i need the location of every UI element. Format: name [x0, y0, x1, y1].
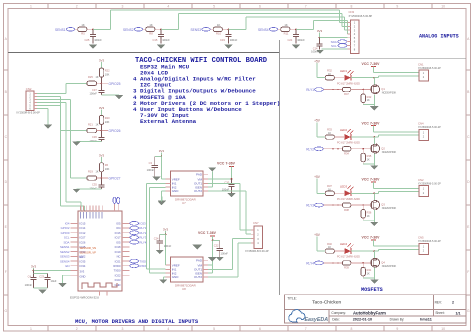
node drain junction CN4 block	[373, 136, 375, 138]
svg-text:U7: U7	[182, 201, 186, 205]
title block row line 2	[329, 315, 466, 317]
node GPIO26 junction	[101, 130, 103, 132]
ESP32 right pins	[122, 222, 130, 224]
section divider vertical (mcu / mosfets)	[279, 40, 281, 295]
svg-text:2: 2	[76, 4, 78, 8]
ground for C22	[216, 257, 224, 261]
svg-text:SENSOR_VP: SENSOR_VP	[80, 250, 97, 254]
svg-text:10K: 10K	[105, 73, 110, 77]
ground above U8	[192, 245, 202, 250]
resistor R36 1K pulldown	[362, 205, 364, 209]
svg-text:C36: C36	[92, 135, 97, 139]
wire CN3 pin8 to ground node	[322, 48, 348, 50]
svg-text:SENS2: SENS2	[60, 250, 70, 254]
capacitor C3 100nF	[155, 156, 162, 158]
svg-text:LED3: LED3	[340, 184, 347, 188]
svg-text:5: 5	[213, 327, 215, 331]
svg-text:IO21: IO21	[115, 259, 121, 263]
svg-text:R8: R8	[149, 31, 153, 35]
svg-text:U8: U8	[182, 287, 186, 291]
capacitor C37 100nF	[101, 83, 103, 90]
svg-text:GPIO26: GPIO26	[109, 129, 121, 133]
svg-text:G: G	[4, 309, 7, 313]
wire gate resistor to mosfet Q4	[351, 262, 370, 264]
frame column ticks and numbers	[47, 4, 49, 9]
svg-text:OUT2: OUT2	[194, 275, 202, 279]
svg-text:TXD0: TXD0	[114, 269, 121, 273]
resistor R22 10K	[99, 68, 103, 77]
svg-text:9: 9	[396, 4, 398, 8]
wire U7 GND to ground	[162, 190, 166, 192]
svg-text:100nF: 100nF	[162, 38, 170, 42]
net label GPIO26	[102, 130, 109, 132]
svg-text:Q1: Q1	[381, 87, 385, 91]
ground for C30	[227, 193, 235, 197]
title block vertical rev cell	[432, 295, 434, 316]
svg-text:CN1: CN1	[418, 62, 424, 66]
net port RLY3 on ESP32	[130, 236, 139, 240]
svg-text:1K: 1K	[328, 188, 331, 191]
svg-text:1K: 1K	[328, 132, 331, 135]
svg-text:3: 3	[122, 327, 124, 331]
svg-text:2: 2	[452, 300, 454, 304]
svg-text:1K: 1K	[284, 23, 287, 27]
svg-text:6: 6	[259, 327, 261, 331]
resistor R38 gate	[342, 203, 351, 207]
svg-text:R20: R20	[105, 116, 110, 120]
ground for Q1	[370, 106, 378, 110]
svg-text:100nF: 100nF	[89, 186, 97, 190]
svg-text:EN: EN	[80, 255, 84, 259]
svg-text:XY2500R-B-5.00-2P: XY2500R-B-5.00-2P	[418, 240, 441, 243]
svg-text:NCE6XP30K: NCE6XP30K	[382, 265, 397, 268]
svg-text:SCL: SCL	[64, 236, 70, 240]
capacitor C30 100nF	[231, 179, 233, 184]
svg-text:IO23: IO23	[139, 222, 146, 226]
title block vertical logo cell	[328, 309, 330, 323]
svg-text:1K: 1K	[367, 215, 370, 218]
svg-text:3V3: 3V3	[99, 153, 105, 157]
svg-text:IO18: IO18	[115, 245, 121, 249]
svg-text:RLY1: RLY1	[306, 88, 314, 92]
resistor R41 1K pulldown	[362, 263, 364, 267]
wire 3V3 to ESP32	[34, 270, 71, 272]
svg-text:IO23: IO23	[115, 278, 121, 282]
resistor R11 1K	[281, 27, 290, 31]
resistor R37 1K	[325, 191, 334, 195]
svg-text:VCC 7-36V: VCC 7-36V	[362, 121, 381, 125]
svg-text:XY2500R-B-5.00-2P: XY2500R-B-5.00-2P	[418, 182, 441, 185]
svg-text:PC-817 2MRK-620D: PC-817 2MRK-620D	[337, 256, 360, 259]
wire RLY1 to gate resistor	[323, 89, 342, 91]
svg-text:3V3: 3V3	[80, 270, 85, 274]
ground for C36	[101, 140, 103, 142]
svg-text:IO16: IO16	[115, 231, 121, 235]
wire motor driver input bus 2	[149, 187, 151, 273]
svg-text:C22: C22	[214, 244, 219, 248]
svg-text:NCE6XP30K: NCE6XP30K	[382, 207, 397, 210]
ground for C3	[152, 177, 160, 181]
wire U8 VM to VCC	[208, 264, 213, 266]
ground for U8 ISEN	[208, 272, 212, 274]
title block outline	[285, 295, 467, 323]
svg-text:RLY2: RLY2	[139, 231, 146, 235]
svg-text:1K: 1K	[367, 99, 370, 102]
svg-text:ESP32-WROOM-32U: ESP32-WROOM-32U	[70, 295, 99, 299]
resistor R42 1K pulldown	[362, 90, 364, 94]
svg-text:10K: 10K	[105, 120, 110, 124]
wire drain to CN5 pin2	[374, 250, 378, 252]
svg-text:10: 10	[441, 327, 445, 331]
svg-text:LED4: LED4	[340, 242, 347, 246]
svg-text:IO15: IO15	[80, 222, 86, 226]
svg-text:3V3: 3V3	[163, 228, 169, 232]
svg-text:F: F	[467, 270, 469, 274]
svg-text:C35: C35	[92, 183, 97, 187]
svg-text:3V3: 3V3	[99, 106, 105, 110]
svg-text:CN2: CN2	[418, 178, 424, 182]
svg-text:C37: C37	[92, 88, 97, 92]
svg-text:100nF: 100nF	[94, 38, 102, 42]
svg-text:SENS3: SENS3	[191, 28, 202, 32]
svg-text:GND: GND	[172, 275, 180, 279]
svg-text:Company:: Company:	[331, 311, 346, 315]
svg-text:VCC 7-36V: VCC 7-36V	[362, 178, 381, 182]
node U7 3V3 junction	[161, 156, 163, 158]
ground near ESP32 right top	[158, 201, 166, 205]
svg-text:R40: R40	[327, 242, 332, 246]
node drain junction CN5 block	[373, 250, 375, 252]
wire SENS2 to bus riser	[161, 28, 178, 30]
svg-text:XY2500R-B-5.00-4P: XY2500R-B-5.00-4P	[245, 249, 269, 253]
svg-text:1K: 1K	[96, 76, 99, 79]
net port TXD0 on ESP32	[130, 259, 139, 263]
svg-text:R42: R42	[367, 95, 372, 99]
svg-text:100nF: 100nF	[89, 139, 97, 143]
svg-text:IO17: IO17	[115, 236, 121, 240]
svg-text:R41: R41	[367, 268, 372, 272]
svg-text:+5V: +5V	[314, 233, 321, 237]
transistor Q2 NCE6XP30K	[371, 144, 380, 153]
svg-text:OUT2: OUT2	[194, 189, 202, 193]
svg-text:GND: GND	[172, 189, 180, 193]
svg-text:Q2: Q2	[381, 146, 385, 150]
ESP32 antenna meander	[82, 283, 117, 289]
ground for C4 C23	[38, 290, 46, 294]
svg-text:10uF: 10uF	[51, 279, 57, 283]
svg-text:PAD: PAD	[196, 173, 203, 177]
svg-text:1K: 1K	[149, 23, 152, 27]
svg-text:IO22: IO22	[115, 273, 121, 277]
wire CN2 pin1 to GPIO25 filter	[37, 92, 66, 94]
svg-text:100nF: 100nF	[25, 283, 33, 287]
resistor R47 gate	[342, 87, 351, 91]
net label GPIO27	[102, 177, 109, 179]
motor driver U7 DRV8871DDAR	[171, 171, 204, 196]
wire motor driver input bus 1	[146, 184, 148, 270]
svg-text:VCC 7-36V: VCC 7-36V	[362, 235, 381, 239]
svg-text:IO26: IO26	[80, 240, 86, 244]
capacitor C23 10uF	[34, 273, 48, 275]
mcu module U5 ESP32-WROOM-32U	[78, 211, 122, 291]
svg-text:SENSOR_VN: SENSOR_VN	[80, 246, 97, 250]
resistor R39 gate	[342, 261, 351, 265]
svg-text:VCC 7-36V: VCC 7-36V	[217, 162, 236, 166]
svg-text:R11: R11	[284, 31, 289, 35]
capacitor C25 100nF	[92, 29, 94, 34]
wire CN2 pin3 to GPIO27 filter	[37, 98, 70, 100]
net label GPIO25	[102, 82, 109, 84]
svg-text:SENS4: SENS4	[60, 259, 70, 263]
svg-text:Sheet:: Sheet:	[435, 311, 444, 315]
svg-text:XY2500R-B-5.00-6P: XY2500R-B-5.00-6P	[16, 111, 40, 115]
wire Q3 source to ground	[373, 210, 375, 222]
wire gate resistor to mosfet Q1	[351, 89, 370, 91]
svg-text:+5V: +5V	[314, 59, 321, 63]
ground for CN2	[44, 125, 52, 129]
resistor R5 1K	[78, 27, 87, 31]
wire SENS3 to bus riser	[229, 28, 246, 30]
resistor R19 1K	[87, 176, 97, 180]
svg-text:PC-817 2MRK-620D: PC-817 2MRK-620D	[337, 142, 360, 145]
node U8 VM junction	[212, 239, 214, 241]
wire U7 OUT2 to CN7 pin2	[208, 190, 246, 192]
wire RLY3 to gate resistor	[323, 204, 342, 206]
svg-text:EN: EN	[65, 264, 69, 268]
node SENS2 junction	[160, 28, 162, 30]
svg-text:Taco-Chicken: Taco-Chicken	[312, 300, 341, 306]
svg-text:IO19: IO19	[115, 250, 121, 254]
node U7 VM junction	[231, 178, 233, 180]
resistor R32 1K	[325, 76, 334, 80]
section divider horizontal right (analog inputs / mosfets)	[280, 57, 467, 59]
svg-text:GPIO27: GPIO27	[109, 177, 121, 181]
svg-text:R35: R35	[367, 154, 372, 158]
wire CN2 pin5 to ESP32 top pin	[37, 105, 60, 107]
ground for C21	[292, 45, 300, 49]
svg-text:C24: C24	[154, 237, 159, 241]
svg-text:IO35: IO35	[80, 259, 86, 263]
svg-text:GPIO25: GPIO25	[109, 82, 121, 86]
resistor R8 1K	[146, 27, 155, 31]
net port RLY1 on ESP32	[130, 226, 139, 230]
svg-text:GPIO2: GPIO2	[61, 226, 70, 230]
ESP32 left pins and net labels	[71, 222, 79, 224]
svg-text:REV:: REV:	[435, 300, 442, 304]
svg-text:100nF: 100nF	[297, 38, 305, 42]
resistor R6 10K	[99, 163, 103, 172]
svg-text:C21: C21	[287, 38, 292, 42]
resistor R21 1K	[87, 128, 97, 132]
ground for U7 GND	[157, 201, 165, 205]
ground for C25	[89, 45, 97, 49]
svg-text:SENS4: SENS4	[258, 28, 269, 32]
svg-text:100nF: 100nF	[230, 38, 238, 42]
resistor R25 1K	[87, 81, 97, 85]
wire Q4 source to ground	[373, 268, 375, 280]
wire 3V3 to U8 VREF	[165, 235, 167, 266]
ground for Q2	[370, 166, 378, 170]
svg-text:RXD0: RXD0	[113, 264, 121, 268]
svg-text:9: 9	[396, 327, 398, 331]
svg-text:MCU, MOTOR DRIVERS AND DIGITAL: MCU, MOTOR DRIVERS AND DIGITAL INPUTS	[75, 318, 199, 325]
title block row line 1	[285, 308, 467, 310]
node I2C 3V3 junction	[319, 37, 321, 39]
wire gate resistor to mosfet Q3	[351, 204, 370, 206]
svg-text:2: 2	[76, 327, 78, 331]
svg-text:C15: C15	[152, 38, 157, 42]
wire Q2 source to ground	[373, 154, 375, 166]
resistor R20 10K	[99, 115, 103, 124]
svg-text:PC-817 2MRK-620D: PC-817 2MRK-620D	[337, 82, 360, 85]
svg-text:CN5: CN5	[418, 236, 424, 240]
wire drain to CN4 pin2	[374, 136, 378, 138]
ground for C15	[157, 45, 165, 49]
wire U7 VM to VCC	[208, 178, 232, 180]
resistor R35 1K pulldown	[362, 149, 364, 153]
svg-text:TITLE:: TITLE:	[287, 296, 297, 300]
svg-text:VCC 7-36V: VCC 7-36V	[362, 62, 381, 66]
ground for C24	[156, 250, 164, 254]
wire bus stub U7 IN1	[147, 183, 166, 185]
svg-text:SCL: SCL	[331, 44, 337, 48]
wire U8 OUT1 to CN7 pin3	[208, 268, 232, 270]
svg-text:G: G	[467, 309, 470, 313]
ESP32 bottom pins	[99, 291, 101, 296]
svg-text:C19: C19	[220, 38, 225, 42]
wire bus run SENS3 to CN3	[246, 16, 345, 18]
wire 3V3 to U7 VREF	[160, 157, 162, 180]
node SENS3 junction	[228, 28, 230, 30]
resistor R40 1K	[325, 249, 334, 253]
svg-text:R39: R39	[344, 266, 349, 270]
ground for C35	[101, 187, 103, 189]
svg-text:Q4: Q4	[381, 261, 385, 265]
svg-text:R34: R34	[344, 152, 349, 156]
wire bus run SENS1 to CN3	[110, 9, 339, 11]
svg-text:IO4: IO4	[116, 226, 121, 230]
wire U7 OUT1 to CN7 pin1	[208, 182, 240, 184]
svg-text:5: 5	[213, 4, 215, 8]
capacitor C22 100nF	[213, 239, 220, 241]
svg-text:4: 4	[167, 4, 169, 8]
svg-text:ANALOG INPUTS: ANALOG INPUTS	[419, 34, 459, 40]
svg-text:SENS1: SENS1	[60, 245, 70, 249]
wire ESP32 GND to ground	[63, 274, 71, 276]
wire 3V3 to CN3 pin5	[320, 37, 348, 39]
capacitor C24 100nF	[160, 234, 166, 236]
wire VCC to CN1 pin1	[374, 72, 419, 74]
svg-text:GND: GND	[80, 274, 86, 278]
svg-text:3V3: 3V3	[317, 29, 323, 33]
svg-text:R38: R38	[344, 208, 349, 212]
svg-text:EasyEDA: EasyEDA	[305, 317, 329, 323]
wire U8 GND to ground	[163, 276, 165, 278]
svg-text:1K: 1K	[81, 23, 84, 27]
svg-text:SDA: SDA	[64, 240, 70, 244]
svg-text:NC: NC	[117, 255, 121, 259]
svg-text:RLY1: RLY1	[139, 226, 146, 230]
net port RLY4 on ESP32	[130, 240, 139, 244]
node ESP32 3V3 junction	[33, 270, 35, 272]
ground for C37	[101, 93, 103, 95]
svg-text:XY2500R-B-5.00-8P: XY2500R-B-5.00-8P	[349, 14, 373, 18]
svg-text:CN3: CN3	[349, 10, 355, 14]
ESP32 top pins	[80, 206, 82, 211]
svg-text:3V3: 3V3	[159, 149, 165, 153]
svg-text:8: 8	[351, 327, 353, 331]
svg-text:IO27: IO27	[80, 236, 86, 240]
capacitor C14 100nF	[319, 38, 321, 44]
svg-text:VCC 7-36V: VCC 7-36V	[198, 231, 217, 235]
svg-text:NCE6XP30K: NCE6XP30K	[382, 92, 397, 95]
net port RLY2 on ESP32	[130, 231, 139, 235]
ground for C14	[316, 50, 324, 54]
svg-text:PC-817 2MRK-620D: PC-817 2MRK-620D	[337, 198, 360, 201]
node SENS4 junction	[295, 28, 297, 30]
wire LED1 to drain node	[351, 77, 374, 79]
wire VCC to CN5 pin1	[374, 245, 419, 247]
capacitor C21 100nF	[295, 29, 297, 34]
svg-text:6: 6	[259, 4, 261, 8]
svg-text:R5: R5	[81, 31, 85, 35]
node GPIO27 junction	[101, 177, 103, 179]
svg-text:PAD: PAD	[196, 259, 203, 263]
svg-text:CN4: CN4	[418, 122, 424, 126]
svg-text:1: 1	[30, 327, 32, 331]
svg-text:C25: C25	[84, 38, 89, 42]
wire gate resistor to mosfet Q2	[351, 148, 370, 150]
svg-text:8: 8	[351, 4, 353, 8]
ground for Q3	[370, 222, 378, 226]
logo EasyEDA	[289, 310, 305, 322]
svg-text:2022-01-10: 2022-01-10	[353, 318, 372, 322]
wire LED2 to drain node	[351, 136, 374, 138]
svg-text:10K: 10K	[105, 167, 110, 171]
net port RXD0 on ESP32	[130, 264, 139, 268]
wire bus run SENS2 to CN3	[178, 13, 342, 15]
node drain junction CN2 block	[373, 192, 375, 194]
svg-text:3V3: 3V3	[31, 265, 37, 269]
svg-text:AutoHobbyFarm: AutoHobbyFarm	[353, 311, 386, 316]
svg-text:3V3: 3V3	[99, 59, 105, 63]
transistor Q4 NCE6XP30K	[371, 258, 380, 267]
ESP32 top boot pins with ports	[114, 204, 116, 212]
capacitor C36 100nF	[101, 131, 103, 138]
svg-text:IO4: IO4	[65, 222, 70, 226]
wire Q1 source to ground	[373, 94, 375, 106]
resistor R33 1K	[325, 135, 334, 139]
wire CN2 pin6 to ground	[37, 108, 48, 110]
svg-text:R36: R36	[367, 210, 372, 214]
svg-text:1: 1	[30, 4, 32, 8]
node SENS1 junction	[92, 28, 94, 30]
resistor R10 1K	[213, 27, 222, 31]
transistor Q3 NCE6XP30K	[371, 201, 380, 210]
wire CN2 pin4 to ESP32 top pin	[37, 101, 66, 103]
node GPIO25 junction	[101, 82, 103, 84]
svg-text:R33: R33	[327, 128, 332, 132]
svg-text:LED2: LED2	[340, 128, 347, 132]
svg-text:R10: R10	[216, 31, 221, 35]
svg-text:MOSFETS: MOSFETS	[361, 287, 383, 293]
svg-text:R6: R6	[105, 163, 109, 167]
svg-text:1K: 1K	[217, 23, 220, 27]
svg-text:RLY4: RLY4	[306, 261, 314, 265]
svg-text:TXD0: TXD0	[139, 259, 147, 263]
svg-text:R32: R32	[327, 68, 332, 72]
wire RLY4 to gate resistor	[323, 262, 342, 264]
